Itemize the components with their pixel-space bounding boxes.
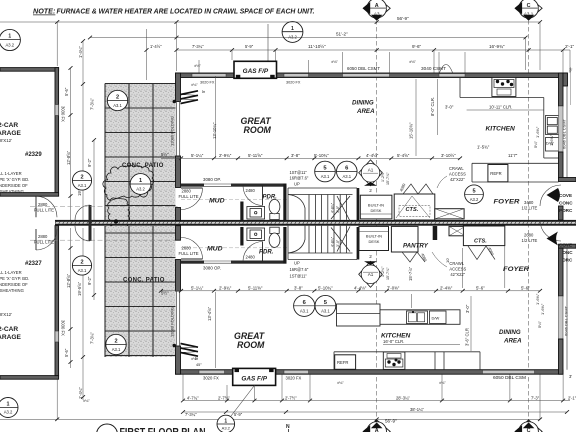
svg-text:A3.1: A3.1 — [78, 183, 87, 188]
gas fireplace box bottom — [233, 368, 276, 385]
svg-text:2: 2 — [369, 188, 372, 193]
svg-text:A3.2: A3.2 — [5, 43, 14, 48]
section circle 1/A3.2 bottom center — [217, 386, 254, 432]
patio bottom grid — [105, 226, 176, 357]
svg-text:A3.1: A3.1 — [321, 174, 330, 179]
grid line C (dashed vertical) — [528, 20, 530, 424]
svg-text:5¼": 5¼" — [537, 320, 542, 328]
section circle 1/A3.2 bottom left — [0, 398, 18, 418]
interior dimension row top unit — [161, 157, 460, 159]
svg-text:2480: 2480 — [246, 188, 256, 193]
svg-text:A1: A1 — [368, 167, 374, 172]
svg-text:1ST@11": 1ST@11" — [290, 274, 308, 279]
svg-text:A: A — [375, 3, 379, 9]
garage top unit walls — [0, 68, 59, 197]
svg-text:2'-4⅜": 2'-4⅜" — [440, 286, 453, 291]
svg-text:3020 FX: 3020 FX — [200, 81, 215, 85]
leader to gas fireplace top — [267, 24, 269, 61]
svg-text:C: C — [527, 428, 531, 432]
svg-text:DESK: DESK — [369, 239, 380, 244]
svg-text:A3.1: A3.1 — [342, 174, 351, 179]
dishwasher top unit — [546, 138, 560, 152]
built-in desk bottom unit — [359, 226, 389, 250]
door centerline top unit — [30, 205, 178, 207]
svg-text:1: 1 — [224, 418, 227, 424]
svg-text:MUD: MUD — [207, 246, 223, 253]
grid bubble A bottom — [363, 420, 391, 432]
svg-text:4'-8¼": 4'-8¼" — [331, 236, 335, 247]
foyer boundary thin lines bottom unit — [463, 246, 505, 288]
svg-text:15'-7⅞": 15'-7⅞" — [386, 172, 390, 185]
svg-text:2-CAR: 2-CAR — [0, 326, 18, 333]
svg-text:BUILT-IN: BUILT-IN — [368, 203, 384, 208]
revision cloud anchor dot — [114, 219, 118, 223]
grid bubble A top — [363, 0, 391, 21]
kitchen sink top unit — [546, 116, 560, 135]
dim extension lines above top wall — [199, 52, 465, 73]
svg-text:5'-6": 5'-6" — [521, 286, 530, 291]
range top unit — [492, 78, 516, 97]
svg-text:5'-1¼": 5'-1¼" — [191, 286, 204, 291]
svg-text:FIRST FLOOR PLAN: FIRST FLOOR PLAN — [120, 427, 206, 432]
dimension segment 7'-3 / 5'-9 top — [177, 22, 276, 71]
svg-text:A3.1: A3.1 — [78, 268, 87, 273]
svg-text:GARAGE: GARAGE — [0, 334, 22, 341]
svg-text:42"X22": 42"X22" — [450, 272, 465, 277]
svg-text:3'-0": 3'-0" — [336, 205, 340, 213]
svg-text:#2327: #2327 — [25, 261, 42, 267]
breezeway door arc top — [75, 205, 90, 220]
svg-text:GAS F/P: GAS F/P — [241, 375, 267, 382]
linen x-box top unit — [435, 209, 464, 219]
svg-text:2: 2 — [116, 95, 119, 101]
svg-text:1'-5¾": 1'-5¾" — [477, 145, 490, 150]
pdr vanity top unit — [247, 207, 265, 220]
svg-text:2'-1": 2'-1" — [568, 396, 576, 401]
left wall bottom unit — [176, 226, 181, 241]
svg-text:A3.2: A3.2 — [288, 35, 297, 40]
door centerline bottom unit — [30, 239, 178, 241]
svg-text:3080 OP.: 3080 OP. — [203, 177, 221, 182]
stair edge + small dims bottom unit — [287, 226, 289, 260]
svg-text:11'7": 11'7" — [508, 153, 518, 158]
section circle 1/A3.2 top-left — [0, 29, 21, 50]
dimension row three bottom 56'-9 — [0, 375, 540, 420]
svg-text:CTS.: CTS. — [474, 239, 487, 245]
svg-text:GAS F/P: GAS F/P — [243, 68, 269, 75]
svg-text:F SHEATHING: F SHEATHING — [0, 288, 24, 293]
svg-text:5'-11⅝": 5'-11⅝" — [248, 153, 263, 158]
section circle 5/A3.2 top foyer — [465, 185, 484, 204]
svg-text:1: 1 — [7, 402, 10, 408]
dimension line 51'-2" top — [90, 38, 526, 71]
garage top gyp. bd. note — [0, 171, 29, 194]
svg-text:FULL LITE: FULL LITE — [179, 194, 199, 199]
pdr door 2480 bottom unit — [243, 242, 263, 262]
pdr right wall top unit — [283, 184, 286, 221]
right side rotated dims bottom unit — [535, 293, 545, 328]
svg-text:16R@7.6": 16R@7.6" — [290, 267, 309, 272]
svg-text:UNDERSIDE OF: UNDERSIDE OF — [0, 282, 28, 287]
svg-text:7'-3¼": 7'-3¼" — [90, 98, 95, 110]
svg-text:5'-10¾": 5'-10¾" — [318, 286, 333, 291]
section circle 2/A3.1 in patio top — [107, 90, 127, 110]
svg-text:2'-1": 2'-1" — [565, 44, 575, 49]
svg-text:KITCHEN: KITCHEN — [486, 126, 516, 133]
svg-text:5'-9": 5'-9" — [234, 412, 243, 417]
svg-text:REFR: REFR — [337, 360, 348, 365]
svg-text:A3.1: A3.1 — [524, 11, 534, 16]
svg-text:DINING: DINING — [352, 100, 374, 107]
svg-text:1ST@11": 1ST@11" — [290, 170, 308, 175]
svg-text:1'-6⅝": 1'-6⅝" — [540, 303, 545, 315]
svg-text:3030 FX: 3030 FX — [61, 106, 66, 122]
front door bottom unit — [522, 220, 562, 246]
svg-text:ALL 1-LAYER: ALL 1-LAYER — [0, 171, 22, 176]
svg-text:A3.1: A3.1 — [321, 308, 330, 313]
wall below front door top unit — [559, 206, 564, 220]
dim 1'-4 near patio top — [146, 29, 148, 80]
covered porch label bottom unit — [559, 243, 573, 263]
svg-text:1/2 LITE: 1/2 LITE — [522, 206, 538, 211]
svg-text:2'-9¾": 2'-9¾" — [219, 286, 232, 291]
svg-text:5'-6": 5'-6" — [64, 87, 69, 96]
svg-text:6046 DBL CSMT: 6046 DBL CSMT — [564, 305, 569, 336]
svg-text:5¼": 5¼" — [533, 140, 538, 148]
gas fireplace box top — [234, 61, 277, 78]
svg-text:N: N — [286, 424, 290, 430]
right side rotated dims top unit — [533, 126, 554, 148]
svg-text:2880: 2880 — [182, 189, 192, 194]
cts closet bottom unit — [463, 226, 504, 260]
garage bottom service door 2880 — [34, 229, 57, 250]
kitchen island bottom unit — [337, 304, 461, 326]
svg-text:5'-10¾": 5'-10¾" — [314, 153, 329, 158]
svg-text:A3.2: A3.2 — [4, 410, 13, 415]
porch jut top unit — [559, 178, 576, 182]
dimension row one bottom — [183, 375, 570, 401]
mud room wall bottom unit — [181, 261, 205, 264]
pdr right wall bottom unit — [283, 227, 286, 264]
crawl access note bottom unit — [432, 252, 467, 277]
svg-text:8'X12': 8'X12' — [0, 312, 12, 317]
svg-text:CTS.: CTS. — [406, 207, 419, 213]
svg-text:UNDERSIDE OF: UNDERSIDE OF — [0, 183, 28, 188]
svg-text:2: 2 — [80, 260, 83, 266]
dimension row two bottom — [183, 411, 567, 413]
window 6046 DBL CSMT top unit — [559, 106, 564, 152]
svg-text:ROOM: ROOM — [244, 125, 272, 135]
svg-text:±⅛": ±⅛" — [191, 83, 198, 87]
svg-text:5': 5' — [201, 90, 206, 93]
diamond grid bubble A1 bottom unit — [359, 254, 383, 287]
svg-text:FULL LITE: FULL LITE — [179, 251, 199, 256]
crawl access note top unit — [437, 166, 466, 188]
svg-text:10': 10' — [445, 258, 450, 263]
svg-text:56'-9": 56'-9" — [385, 419, 397, 424]
svg-text:ALL 1-LAYER: ALL 1-LAYER — [0, 270, 22, 275]
svg-text:A3.2: A3.2 — [136, 187, 145, 192]
svg-text:COVE: COVE — [559, 243, 572, 248]
svg-text:TYPE 'X' GYP. BD.: TYPE 'X' GYP. BD. — [0, 276, 29, 281]
svg-text:6046 DBL CSMT: 6046 DBL CSMT — [562, 118, 567, 149]
svg-text:19'-5⅝": 19'-5⅝" — [77, 281, 82, 296]
window 3020 FX bottom-left — [199, 370, 225, 373]
svg-text:CRAWL: CRAWL — [449, 166, 464, 171]
svg-text:A3.1: A3.1 — [113, 103, 122, 108]
svg-text:12'-8⅝": 12'-8⅝" — [66, 150, 71, 165]
svg-text:2: 2 — [369, 254, 372, 259]
svg-text:#2329: #2329 — [25, 152, 42, 158]
svg-text:3'-6" CLR: 3'-6" CLR — [465, 328, 470, 346]
svg-text:CONC: CONC — [559, 201, 573, 206]
svg-text:3'-8": 3'-8" — [291, 153, 300, 158]
svg-text:±⅛": ±⅛" — [439, 381, 446, 385]
svg-text:7'-3¼": 7'-3¼" — [185, 412, 197, 417]
kitchen counter along bottom wall — [334, 352, 480, 370]
porch edge line top unit — [566, 86, 568, 178]
bifold door 4080 top unit — [399, 183, 433, 194]
bottom exterior wall — [176, 370, 564, 375]
svg-text:MUD: MUD — [209, 198, 225, 205]
patio door 2880 bottom unit (into mud) — [179, 238, 203, 260]
svg-text:15'-7⅞": 15'-7⅞" — [386, 267, 390, 280]
stair right wall bottom unit — [357, 227, 360, 260]
svg-text:PORC: PORC — [559, 208, 573, 213]
svg-text:3': 3' — [569, 374, 572, 379]
svg-text:56'-9": 56'-9" — [397, 16, 409, 21]
svg-text:A3.1: A3.1 — [112, 347, 121, 352]
garage top service door 2880 — [34, 196, 57, 217]
svg-text:CONC. PATIO: CONC. PATIO — [123, 278, 165, 284]
folding door 12080 top unit — [170, 100, 180, 156]
section circle 2/A3.1 left bottom — [72, 256, 91, 275]
svg-text:A3.2: A3.2 — [222, 426, 231, 431]
svg-text:5: 5 — [472, 188, 475, 194]
svg-text:2: 2 — [80, 175, 83, 181]
svg-text:7'-3¼": 7'-3¼" — [192, 44, 204, 49]
covered porch label top unit — [559, 193, 573, 213]
svg-text:3'-0": 3'-0" — [465, 304, 470, 313]
svg-text:9'-2": 9'-2" — [87, 276, 92, 285]
svg-text:2680: 2680 — [524, 233, 534, 238]
patio top unit concrete slab — [105, 84, 176, 221]
opening 3080 OP. top unit — [203, 177, 231, 186]
linen x-box bottom unit — [449, 226, 465, 235]
mud room centerline bottom unit — [181, 247, 288, 249]
svg-text:5'-1¼": 5'-1¼" — [191, 153, 204, 158]
svg-text:45°: 45° — [196, 363, 202, 367]
svg-text:4'-7¾": 4'-7¾" — [187, 396, 199, 401]
svg-text:1: 1 — [139, 178, 142, 184]
svg-text:A1: A1 — [368, 272, 374, 277]
mud room wall top unit — [181, 184, 205, 187]
note text top — [33, 7, 315, 16]
porch edge line bottom unit — [566, 248, 568, 370]
svg-text:2880: 2880 — [38, 234, 48, 239]
left dimension column 5'-6 / 12'-8 top — [71, 41, 95, 220]
svg-text:7'-0⅜": 7'-0⅜" — [387, 286, 400, 291]
kitchen counters top unit — [460, 78, 559, 183]
svg-text:1'-4½": 1'-4½" — [150, 44, 162, 49]
svg-text:8'-0" CLR.: 8'-0" CLR. — [430, 97, 435, 116]
svg-text:PDR.: PDR. — [259, 250, 274, 256]
svg-text:11'-10½": 11'-10½" — [308, 43, 326, 49]
svg-text:AREA: AREA — [356, 108, 375, 115]
svg-text:16'-0" CLR.: 16'-0" CLR. — [383, 339, 404, 344]
svg-text:1/2 LITE: 1/2 LITE — [522, 238, 538, 243]
svg-text:13'-4⅝": 13'-4⅝" — [207, 306, 212, 321]
svg-text:12'-8⅝": 12'-8⅝" — [66, 273, 71, 288]
top exterior wall — [176, 73, 568, 78]
svg-text:PANTRY: PANTRY — [403, 243, 429, 250]
kitchen clearance dims top unit — [216, 76, 544, 157]
svg-text:A3.2: A3.2 — [470, 197, 479, 202]
revision cloud with 1/A3.2 patio top — [103, 165, 154, 229]
svg-text:±⅛": ±⅛" — [337, 381, 344, 385]
pantry right wall bottom unit — [433, 226, 438, 240]
refrigerator bottom unit — [335, 355, 356, 370]
svg-text:2'-7½": 2'-7½" — [285, 396, 297, 401]
svg-text:12080 FOLDING: 12080 FOLDING — [170, 307, 175, 337]
svg-text:±⅛": ±⅛" — [83, 399, 90, 403]
svg-text:DINING: DINING — [499, 329, 521, 336]
kitchen clearance dims bottom unit — [216, 292, 472, 368]
svg-text:12080 FOLDING: 12080 FOLDING — [170, 116, 175, 146]
svg-text:2880: 2880 — [182, 246, 192, 251]
svg-text:C: C — [527, 3, 531, 9]
opening 3080 OP. bottom unit — [203, 261, 231, 271]
svg-text:NOTE:: NOTE: — [33, 7, 56, 16]
svg-text:38'-1¼": 38'-1¼" — [410, 407, 424, 412]
svg-text:13'-10¼": 13'-10¼" — [212, 122, 217, 139]
svg-text:AREA: AREA — [503, 338, 522, 345]
svg-text:5½": 5½" — [161, 152, 169, 157]
svg-text:±⅛": ±⅛" — [331, 59, 339, 64]
svg-text:4'-4⅛": 4'-4⅛" — [354, 286, 367, 291]
patio door 2880 top unit (into mud) — [179, 188, 203, 210]
svg-text:5'-6": 5'-6" — [476, 286, 485, 291]
svg-text:1'-4¼": 1'-4¼" — [78, 387, 83, 399]
stairs bottom unit — [288, 226, 357, 260]
folding panels zigzag bottom unit — [181, 344, 199, 357]
casement swing arc 3040 window — [440, 65, 453, 73]
dimension line 56'-9" top — [0, 22, 540, 70]
svg-text:3'-0": 3'-0" — [336, 239, 340, 247]
window 3020 FX bottom-right — [284, 370, 309, 373]
svg-text:DESK: DESK — [371, 208, 382, 213]
svg-text:3'-0": 3'-0" — [445, 105, 454, 110]
svg-text:COVE: COVE — [559, 193, 572, 198]
svg-text:51'-2": 51'-2" — [336, 32, 348, 37]
section circles 6 and 5 bottom unit — [294, 295, 315, 316]
svg-text:16R@7.6": 16R@7.6" — [290, 176, 309, 181]
window 3020 FX top-right of great room — [284, 74, 309, 77]
toilet top unit — [269, 199, 280, 219]
svg-text:1'-6⅝": 1'-6⅝" — [535, 293, 540, 305]
window 6050 DBL CSMT top — [343, 74, 390, 77]
svg-text:3480: 3480 — [524, 200, 534, 205]
front door top unit — [522, 185, 562, 211]
stair labels bottom unit — [290, 261, 309, 279]
svg-text:3020 FX: 3020 FX — [286, 376, 302, 381]
svg-text:A3: A3 — [374, 11, 380, 16]
stair right wall top unit — [357, 188, 360, 220]
window 3020 FX top-left of great room — [192, 74, 226, 77]
svg-text:2480: 2480 — [246, 255, 256, 260]
section circle 2/A3.1 in patio bottom — [106, 334, 126, 354]
dimension row three top — [276, 50, 571, 73]
svg-text:6050 DBL CSMT: 6050 DBL CSMT — [347, 66, 380, 71]
refrigerator top unit — [488, 165, 508, 182]
svg-text:REFR: REFR — [490, 171, 501, 176]
section circle 2/A3.1 left top — [72, 171, 91, 190]
range bottom unit — [383, 352, 405, 369]
svg-text:2: 2 — [114, 339, 117, 345]
stair edge + small dims top unit — [287, 188, 289, 220]
toilet bottom unit — [269, 227, 280, 247]
svg-text:10'-11" CLR.: 10'-11" CLR. — [489, 105, 512, 110]
svg-text:ROOM: ROOM — [237, 340, 265, 350]
svg-text:2'-9¾": 2'-9¾" — [219, 153, 232, 158]
interior dimension row bottom unit — [161, 290, 540, 292]
garage top window 3030 FX — [55, 105, 59, 116]
svg-text:FULL LITE: FULL LITE — [34, 240, 54, 245]
pdr vanity bottom unit — [247, 228, 265, 241]
grid line A (dashed vertical) — [376, 20, 378, 424]
svg-text:3020 FX: 3020 FX — [286, 81, 301, 85]
svg-text:1'-6⅝": 1'-6⅝" — [535, 126, 540, 138]
svg-text:A3.1: A3.1 — [300, 308, 309, 313]
svg-text:3080 OP.: 3080 OP. — [203, 266, 221, 271]
window 3040 CSMT top — [439, 74, 465, 77]
svg-text:5'-11⅝": 5'-11⅝" — [248, 286, 263, 291]
svg-text:5'-4⅝": 5'-4⅝" — [397, 153, 410, 158]
svg-text:4'-4½": 4'-4½" — [366, 153, 379, 158]
left wall top unit — [176, 73, 181, 102]
diamond grid bubble A1 top unit — [359, 160, 383, 193]
svg-text:UP: UP — [294, 261, 300, 266]
garage bottom unit walls — [0, 226, 59, 380]
wall below porch bottom unit — [559, 248, 564, 296]
svg-text:F SHEATHING: F SHEATHING — [0, 189, 24, 194]
svg-text:1'-6⅝": 1'-6⅝" — [549, 134, 554, 146]
mud/pdr divider top unit — [240, 202, 243, 221]
breezeway gate wall between patios — [89, 205, 92, 241]
svg-text:3030 FX: 3030 FX — [61, 320, 66, 336]
svg-text:3'-10½": 3'-10½" — [441, 153, 456, 158]
svg-text:FULL LITE: FULL LITE — [34, 208, 54, 213]
mud/pdr divider bottom unit — [240, 227, 243, 246]
svg-text:5'-9": 5'-9" — [245, 44, 254, 49]
svg-text:4'-8¼": 4'-8¼" — [331, 202, 335, 213]
svg-text:±⅛": ±⅛" — [194, 63, 202, 68]
svg-text:16'-9¾": 16'-9¾" — [489, 44, 505, 49]
svg-text:FURNACE & WATER HEATER ARE LOC: FURNACE & WATER HEATER ARE LOCATED IN CR… — [57, 7, 315, 16]
built-in desk top unit — [360, 195, 392, 219]
svg-text:15'-7⅞": 15'-7⅞" — [408, 266, 413, 281]
svg-text:TYPE 'X' GYP. BD.: TYPE 'X' GYP. BD. — [0, 177, 29, 182]
svg-text:FOYER: FOYER — [494, 199, 520, 206]
left dimension column bottom — [71, 228, 95, 400]
svg-text:ACCESS: ACCESS — [449, 172, 466, 177]
svg-text:9'-6": 9'-6" — [412, 44, 422, 49]
folding panels zigzag top unit — [181, 91, 199, 104]
mud room centerline top unit — [181, 198, 288, 200]
svg-text:GARAGE: GARAGE — [0, 130, 22, 137]
svg-text:3020 FX: 3020 FX — [203, 376, 219, 381]
svg-text:7'-3": 7'-3" — [531, 396, 540, 401]
